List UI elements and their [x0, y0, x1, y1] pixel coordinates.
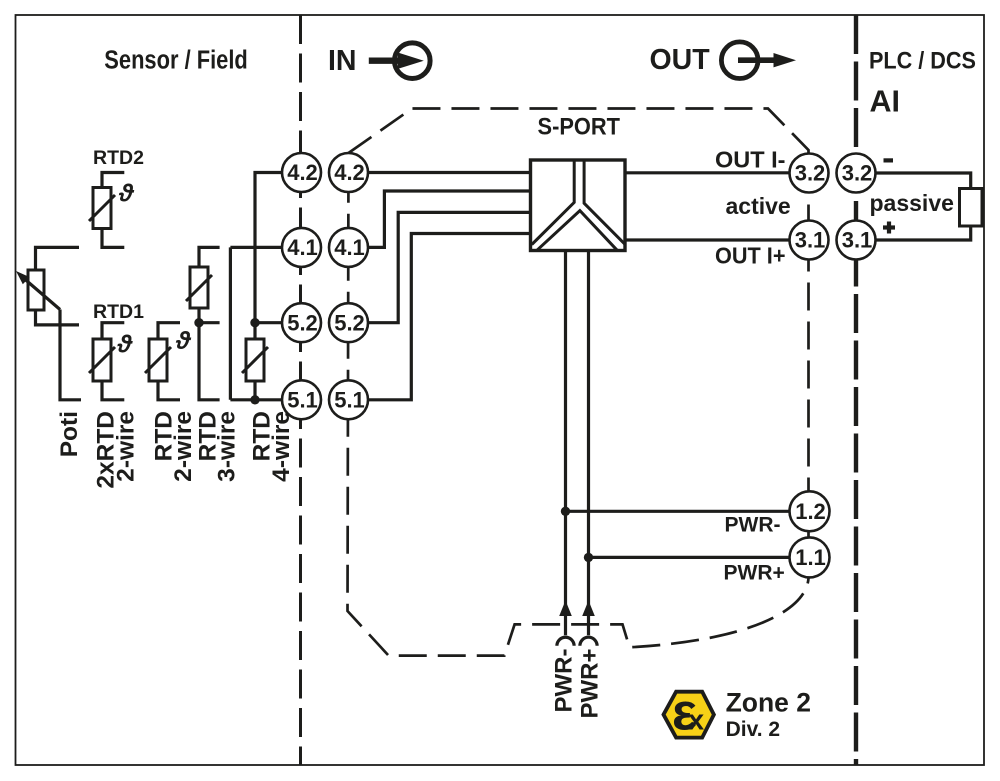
svg-text:3.1: 3.1 — [795, 228, 826, 253]
svg-text:OUT: OUT — [650, 44, 711, 76]
svg-text:PLC / DCS: PLC / DCS — [869, 48, 976, 75]
svg-text:Zone 2: Zone 2 — [726, 688, 811, 718]
svg-text:Div. 2: Div. 2 — [726, 718, 780, 741]
svg-text:4-wire: 4-wire — [268, 411, 295, 482]
svg-text:Sensor / Field: Sensor / Field — [104, 46, 248, 74]
svg-text:ϑ: ϑ — [175, 327, 192, 355]
svg-text:PWR-: PWR- — [725, 514, 781, 537]
svg-text:PWR-: PWR- — [551, 648, 578, 712]
svg-text:RTD2: RTD2 — [93, 147, 144, 169]
svg-text:4.1: 4.1 — [334, 235, 365, 260]
svg-text:3-wire: 3-wire — [214, 411, 241, 482]
svg-text:AI: AI — [870, 84, 901, 118]
svg-text:PWR+: PWR+ — [577, 649, 604, 719]
svg-text:ϑ: ϑ — [118, 180, 135, 208]
svg-text:IN: IN — [328, 45, 357, 77]
svg-text:OUT I-: OUT I- — [715, 147, 786, 173]
svg-text:4.1: 4.1 — [287, 235, 318, 260]
svg-text:4.2: 4.2 — [287, 160, 318, 185]
svg-text:1.1: 1.1 — [795, 545, 826, 570]
svg-text:ϑ: ϑ — [117, 331, 134, 359]
svg-text:RTD1: RTD1 — [93, 301, 144, 323]
svg-text:5.2: 5.2 — [287, 310, 318, 335]
svg-text:PWR+: PWR+ — [724, 562, 785, 585]
svg-text:x: x — [688, 705, 704, 737]
svg-text:5.1: 5.1 — [334, 388, 365, 413]
svg-text:passive: passive — [870, 190, 954, 216]
svg-text:5.1: 5.1 — [287, 388, 318, 413]
svg-text:3.2: 3.2 — [842, 161, 873, 186]
svg-text:1.2: 1.2 — [795, 499, 826, 524]
svg-text:4.2: 4.2 — [334, 160, 365, 185]
svg-text:active: active — [726, 193, 791, 219]
svg-text:2-wire: 2-wire — [170, 411, 197, 482]
svg-text:Poti: Poti — [56, 411, 83, 457]
svg-text:3.2: 3.2 — [795, 161, 826, 186]
svg-text:5.2: 5.2 — [334, 310, 365, 335]
svg-text:OUT I+: OUT I+ — [715, 243, 786, 269]
svg-text:2-wire: 2-wire — [112, 411, 139, 482]
svg-text:3.1: 3.1 — [842, 228, 873, 253]
svg-text:S-PORT: S-PORT — [538, 114, 621, 141]
